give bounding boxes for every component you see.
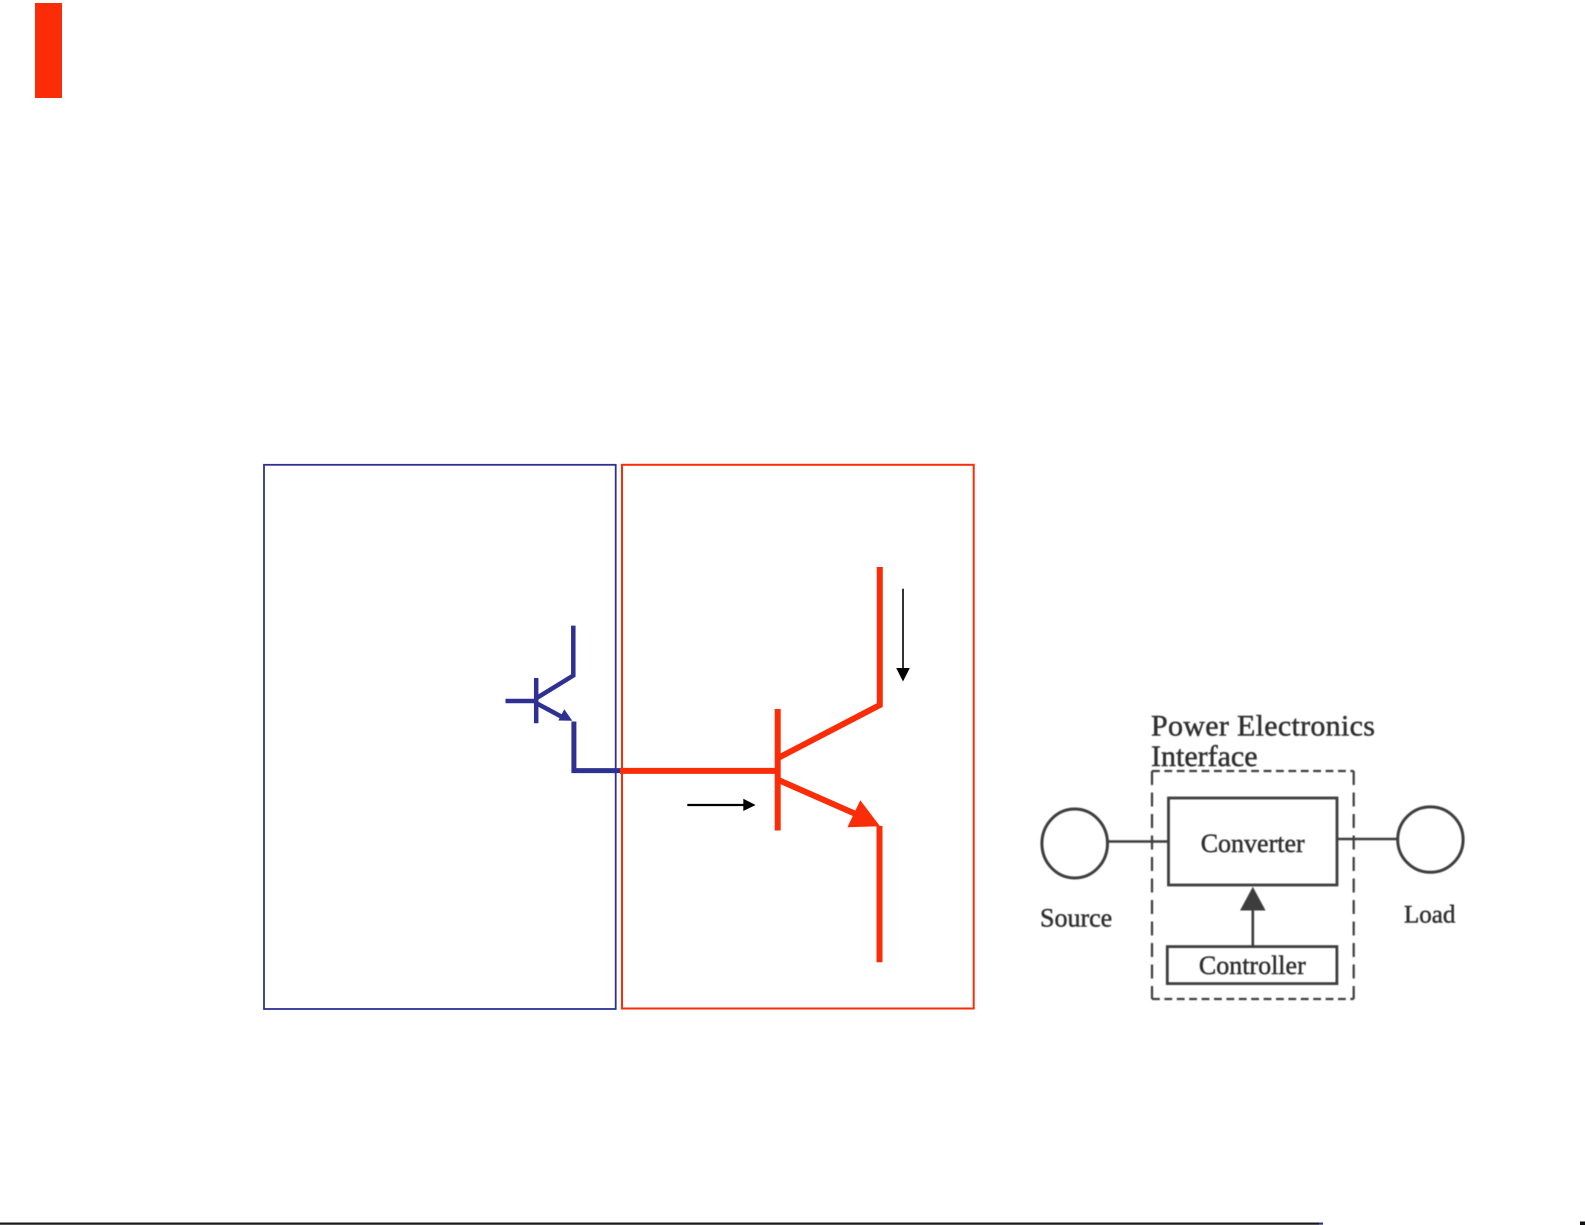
- collector: [537, 626, 573, 698]
- emitter shaft: [537, 704, 563, 718]
- svg-text:Controller: Controller: [1199, 951, 1306, 980]
- red region box: [622, 465, 974, 1009]
- emitter shaft: [779, 780, 858, 815]
- base bar: [534, 678, 539, 723]
- base lead: [506, 699, 537, 704]
- emitter arrowhead (red): [847, 800, 880, 827]
- scanned block diagram: Power Electronics Interface: [1040, 710, 1463, 1000]
- source wire: [1108, 840, 1169, 842]
- bottom rule blue tick: [1319, 1222, 1323, 1224]
- Controller box: [1167, 947, 1337, 984]
- svg-text:Source: Source: [1040, 904, 1112, 933]
- collector: [779, 567, 880, 758]
- source circle: [1042, 809, 1108, 878]
- base lead: [620, 768, 778, 774]
- current arrow iC (down): [896, 589, 910, 682]
- svg-text:Converter: Converter: [1201, 829, 1305, 858]
- emitter arrowhead (blue): [558, 709, 572, 721]
- control arrow: [1252, 909, 1255, 946]
- bottom rule: [0, 1222, 1319, 1224]
- transistor Q2 (red, large): [620, 567, 880, 962]
- base bar: [775, 709, 781, 831]
- Converter box: [1169, 798, 1338, 885]
- svg-text:Load: Load: [1404, 902, 1456, 929]
- corner dot: [1580, 1222, 1585, 1225]
- load circle: [1398, 807, 1463, 872]
- dashed interface box: [1152, 771, 1354, 999]
- svg-text:Interface: Interface: [1151, 740, 1258, 773]
- current arrow iB (right): [687, 799, 755, 811]
- transistor Q1 (blue, small): [506, 626, 574, 724]
- svg-text:Power Electronics: Power Electronics: [1151, 710, 1375, 743]
- blue region box: [264, 465, 616, 1009]
- emitter terminal: [877, 826, 883, 962]
- load wire: [1337, 838, 1398, 840]
- wire from Q1 emitter to Q2 base: [574, 722, 620, 771]
- red corner block: [35, 3, 62, 98]
